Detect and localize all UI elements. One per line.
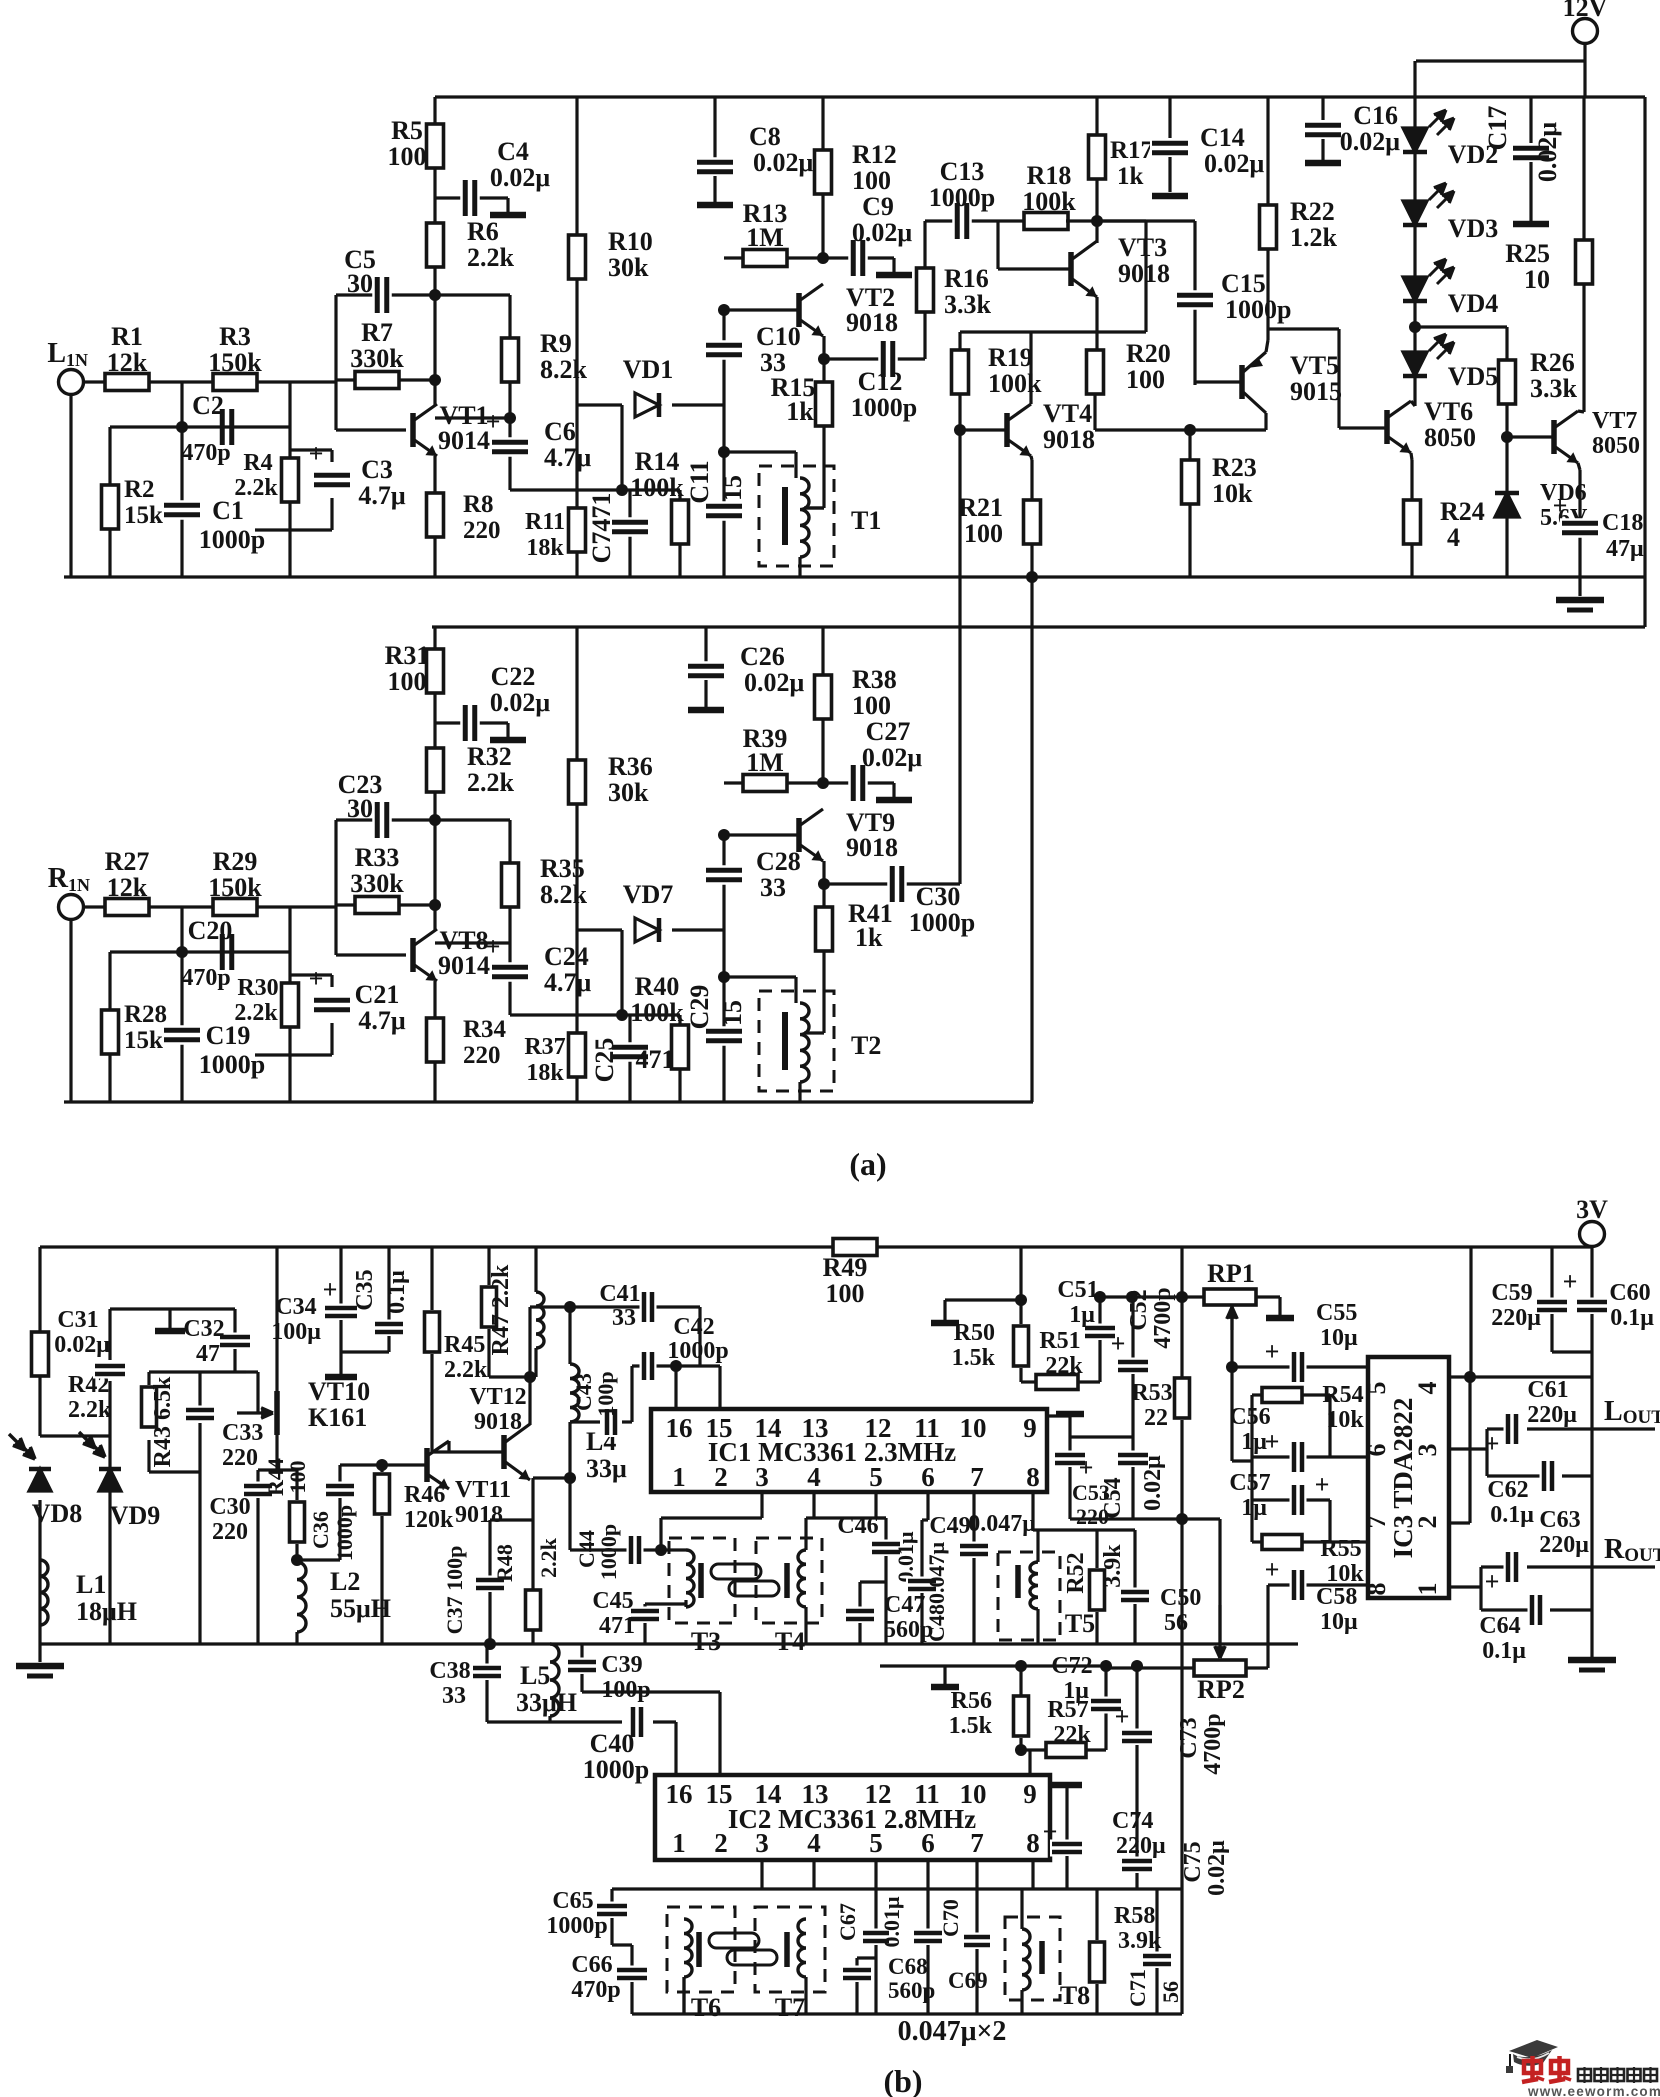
svg-text:R23: R23 xyxy=(1212,453,1257,482)
svg-text:C52: C52 xyxy=(1126,1289,1152,1330)
capacitor C2 xyxy=(217,407,237,447)
capacitor C37 xyxy=(488,1520,491,1576)
svg-text:R34: R34 xyxy=(463,1016,507,1043)
svg-text:R27: R27 xyxy=(105,847,150,876)
inductor L5 xyxy=(550,1644,559,1716)
svg-text:1k: 1k xyxy=(855,923,883,952)
capacitor C34 electrolytic xyxy=(339,1247,342,1304)
LED VD5 xyxy=(1403,352,1427,376)
svg-text:7: 7 xyxy=(970,1462,984,1492)
node R7 collector xyxy=(429,374,441,386)
wire R4 column xyxy=(288,382,291,462)
wire VD1 row xyxy=(577,403,622,406)
capacitor C66 xyxy=(612,1943,632,1946)
ground main xyxy=(1578,577,1581,596)
wire R41 to T2 tap xyxy=(822,951,825,1033)
svg-text:R53: R53 xyxy=(1131,1380,1172,1406)
svg-text:R14: R14 xyxy=(635,447,680,476)
svg-text:VT4: VT4 xyxy=(1043,399,1092,428)
wire VT6 collector xyxy=(1411,401,1415,406)
capacitor C63 electrolytic xyxy=(1479,1567,1482,1587)
diode VD7 xyxy=(635,918,659,942)
wire VT8 emitter xyxy=(433,981,436,1102)
capacitor C41 xyxy=(530,1305,700,1308)
wire VT2 collector xyxy=(821,97,824,234)
wire VT7 emitter xyxy=(1578,463,1580,470)
svg-text:1000p: 1000p xyxy=(596,1524,621,1580)
transistor VT6 xyxy=(1384,410,1390,444)
svg-text:T8: T8 xyxy=(1060,1981,1090,2010)
wire R2 branch xyxy=(110,425,182,428)
capacitor C68 xyxy=(857,1956,876,1959)
svg-text:0.02μ: 0.02μ xyxy=(1140,1455,1166,1511)
wire VT3 base xyxy=(996,221,999,269)
resistor R30 xyxy=(282,983,299,1027)
resistor R47 xyxy=(487,1247,490,1285)
svg-text:R32: R32 xyxy=(467,742,512,771)
wire input line ch2 xyxy=(69,920,72,1102)
svg-text:C65: C65 xyxy=(552,1888,593,1914)
wire C23/R33/base column xyxy=(334,820,337,955)
wire RP2 left feed xyxy=(1100,1660,1112,1672)
wire C30 coupling riser xyxy=(958,430,961,884)
capacitor C20 xyxy=(217,932,237,972)
svg-text:10μ: 10μ xyxy=(1320,1325,1358,1351)
resistor R49 xyxy=(833,1239,877,1256)
svg-text:C75: C75 xyxy=(1180,1841,1206,1882)
wire top supply bus section b xyxy=(40,1245,1592,1248)
svg-text:9018: 9018 xyxy=(846,308,898,337)
resistor R45 xyxy=(430,1247,433,1310)
wire IC1 pin9 xyxy=(1047,1414,1070,1417)
svg-text:R19: R19 xyxy=(988,343,1033,372)
transistor VT8 xyxy=(410,938,416,972)
diode VD1 xyxy=(635,393,659,417)
svg-text:56: 56 xyxy=(1164,1610,1188,1636)
svg-text:0.01μ: 0.01μ xyxy=(879,1896,904,1948)
svg-text:R33: R33 xyxy=(355,843,400,872)
svg-text:30k: 30k xyxy=(608,253,649,282)
resistor R21 xyxy=(1024,500,1041,544)
svg-text:10: 10 xyxy=(1524,265,1550,294)
svg-text:0.1μ: 0.1μ xyxy=(1490,1502,1534,1528)
transistor VT5 xyxy=(1239,365,1245,399)
svg-text:T4: T4 xyxy=(775,1627,805,1656)
svg-text:VT3: VT3 xyxy=(1118,233,1167,262)
wire pin4 stub IC2 xyxy=(812,1860,815,1889)
transformer T2 input wire xyxy=(724,975,796,978)
svg-text:VT7: VT7 xyxy=(1592,408,1637,434)
svg-text:0.1μ: 0.1μ xyxy=(1610,1305,1654,1331)
svg-text:47μ: 47μ xyxy=(1606,536,1644,562)
svg-text:+: + xyxy=(1265,1337,1280,1366)
svg-text:100p: 100p xyxy=(601,1677,650,1703)
svg-text:VT6: VT6 xyxy=(1424,397,1473,426)
wire VT3 emitter to R20 xyxy=(1095,297,1098,352)
transformer T4 xyxy=(756,1538,822,1623)
resistor R58 xyxy=(1095,1889,1098,1940)
wire IC1 pin8 block xyxy=(1031,1492,1034,1530)
svg-text:C69: C69 xyxy=(948,1968,988,1993)
svg-text:4: 4 xyxy=(1447,523,1460,552)
svg-text:L5: L5 xyxy=(520,1661,550,1690)
svg-text:+: + xyxy=(1265,1555,1280,1584)
svg-text:30k: 30k xyxy=(608,778,649,807)
photodiode VD9 xyxy=(108,1436,111,1469)
svg-text:33μ: 33μ xyxy=(586,1454,627,1483)
resistor R13 xyxy=(743,250,787,267)
svg-text:R56: R56 xyxy=(951,1688,992,1714)
wire R28 branch xyxy=(110,950,182,953)
svg-text:10: 10 xyxy=(960,1779,987,1809)
svg-text:8.2k: 8.2k xyxy=(540,355,588,384)
svg-text:+: + xyxy=(323,1275,338,1304)
svg-text:0.02μ: 0.02μ xyxy=(852,218,913,247)
transformer T6 xyxy=(667,1907,735,1992)
svg-text:0.1μ: 0.1μ xyxy=(384,1270,410,1314)
svg-text:1.2k: 1.2k xyxy=(1290,223,1338,252)
wire RP2 feed xyxy=(1070,1517,1220,1520)
resistor R40 xyxy=(678,1015,681,1102)
svg-text:0.01μ: 0.01μ xyxy=(893,1531,918,1583)
svg-text:13: 13 xyxy=(802,1779,829,1809)
svg-text:C70: C70 xyxy=(938,1899,963,1937)
wire IC1 pin5 xyxy=(874,1492,877,1518)
node C20 junction xyxy=(176,946,188,958)
svg-text:15: 15 xyxy=(718,1000,747,1026)
resistor R31 xyxy=(427,649,444,693)
svg-text:330k: 330k xyxy=(350,869,404,898)
svg-text:33: 33 xyxy=(442,1683,466,1709)
wire C31 branch xyxy=(108,1309,111,1360)
svg-text:C11: C11 xyxy=(685,460,714,503)
ground stub C4 xyxy=(490,212,526,219)
potentiometer RP2 xyxy=(1194,1660,1246,1676)
svg-text:1000p: 1000p xyxy=(909,908,975,937)
wire bottom ground bus channel 2 xyxy=(64,1100,1033,1103)
svg-text:220μ: 220μ xyxy=(1116,1833,1166,1859)
wire C3 column xyxy=(330,450,333,462)
wire VT2 base xyxy=(724,308,801,311)
svg-text:100k: 100k xyxy=(988,369,1042,398)
svg-text:2: 2 xyxy=(714,1828,728,1858)
svg-text:C37 100p: C37 100p xyxy=(442,1546,467,1635)
svg-text:VT11: VT11 xyxy=(455,1477,511,1503)
svg-text:C73: C73 xyxy=(1176,1717,1202,1758)
svg-text:R29: R29 xyxy=(213,847,258,876)
svg-text:3.3k: 3.3k xyxy=(944,290,992,319)
wire R16 column xyxy=(923,221,926,359)
svg-text:C16: C16 xyxy=(1353,101,1398,130)
capacitor C5 xyxy=(372,275,392,315)
svg-text:VD8: VD8 xyxy=(32,1499,83,1528)
wire R13 feedback row xyxy=(724,256,823,259)
capacitor C17 xyxy=(1529,97,1532,143)
inductor choke xyxy=(534,1247,537,1292)
svg-text:C41: C41 xyxy=(599,1281,640,1307)
svg-text:8: 8 xyxy=(1026,1828,1040,1858)
svg-text:22: 22 xyxy=(1144,1405,1168,1431)
svg-text:C25: C25 xyxy=(590,1038,619,1083)
node R44 L2 xyxy=(291,1554,303,1566)
wire R39 feedback row xyxy=(724,781,823,784)
capacitor C30b xyxy=(256,1470,259,1482)
wire T6 feed xyxy=(682,1977,685,2014)
svg-text:0.02μ: 0.02μ xyxy=(753,148,814,177)
wire bottom ground bus channel 1 xyxy=(64,575,1645,578)
resistor R15 xyxy=(816,382,833,426)
svg-text:R25: R25 xyxy=(1505,239,1550,268)
IC1 box xyxy=(651,1409,1047,1492)
svg-text:(a): (a) xyxy=(849,1146,886,1182)
node R13 base xyxy=(718,304,730,316)
resistor R10 xyxy=(569,235,586,279)
capacitor C15 xyxy=(1193,221,1196,385)
svg-text:9018: 9018 xyxy=(846,833,898,862)
node R21 ground bus xyxy=(1026,571,1038,583)
svg-text:33: 33 xyxy=(760,873,786,902)
transistor VT1 xyxy=(410,413,416,447)
svg-text:15: 15 xyxy=(706,1413,733,1443)
svg-text:4.7μ: 4.7μ xyxy=(358,481,406,510)
wire VT2 emitter xyxy=(822,336,825,385)
wire VT6 emitter xyxy=(1411,453,1412,460)
resistor R46 xyxy=(380,1465,383,1472)
wire VT8 collector column xyxy=(433,627,436,931)
svg-text:VD4: VD4 xyxy=(1448,289,1499,318)
svg-text:100p: 100p xyxy=(593,1371,618,1416)
svg-text:R6: R6 xyxy=(467,217,499,246)
inductor L2 xyxy=(297,1562,306,1632)
resistor R12 xyxy=(815,150,832,194)
wire bottom rail section b mid xyxy=(40,1642,1298,1645)
svg-text:T3: T3 xyxy=(691,1627,721,1656)
svg-text:R20: R20 xyxy=(1126,339,1171,368)
resistor R22 xyxy=(1266,97,1269,205)
transformer T7 xyxy=(755,1907,825,1992)
photodiode VD8 xyxy=(29,1469,51,1491)
svg-text:0.047μ: 0.047μ xyxy=(968,1511,1036,1537)
svg-text:2: 2 xyxy=(1413,1516,1442,1529)
svg-text:C3: C3 xyxy=(361,455,393,484)
node VT1 collector feedback xyxy=(429,289,441,301)
svg-text:C18: C18 xyxy=(1602,510,1643,536)
capacitor C48 xyxy=(920,1520,923,1577)
wire R43 C33 loop xyxy=(149,1370,246,1373)
wire IC3 pin4 row xyxy=(1449,1375,1592,1378)
svg-text:+: + xyxy=(1485,1567,1500,1596)
svg-text:C40: C40 xyxy=(590,1729,635,1758)
svg-text:C47: C47 xyxy=(884,1592,925,1618)
svg-text:470p: 470p xyxy=(571,1977,620,2003)
inductor L1 xyxy=(40,1560,48,1625)
capacitor C30 coupling xyxy=(871,882,960,885)
resistor R26 xyxy=(1505,327,1508,360)
svg-text:R47 2.2k: R47 2.2k xyxy=(488,1264,514,1355)
svg-text:0.02μ: 0.02μ xyxy=(1204,149,1265,178)
svg-text:C13: C13 xyxy=(940,157,985,186)
svg-text:C42: C42 xyxy=(673,1314,714,1340)
svg-text:K161: K161 xyxy=(308,1403,367,1432)
svg-text:220μ: 220μ xyxy=(1491,1305,1541,1331)
svg-text:C21: C21 xyxy=(355,980,400,1009)
svg-text:R1: R1 xyxy=(111,322,143,351)
capacitor C67 xyxy=(874,1860,877,1929)
resistor R48 xyxy=(526,1590,541,1630)
node R33 collector xyxy=(429,899,441,911)
svg-text:2.2k: 2.2k xyxy=(234,475,278,501)
capacitor C58 electrolytic xyxy=(1290,1568,1307,1602)
svg-text:5: 5 xyxy=(869,1462,883,1492)
svg-text:2.2k: 2.2k xyxy=(536,1537,561,1578)
wire IC3 pin2 tie xyxy=(1468,1377,1471,1523)
capacitor C52 xyxy=(1131,1297,1134,1358)
svg-text:100: 100 xyxy=(964,519,1003,548)
svg-text:C60: C60 xyxy=(1609,1280,1650,1306)
wire R36/R37 column xyxy=(575,627,578,1102)
resistor R50 xyxy=(1019,1247,1022,1324)
svg-text:8: 8 xyxy=(1362,1583,1391,1596)
svg-text:C35: C35 xyxy=(352,1269,378,1310)
svg-text:150k: 150k xyxy=(208,348,262,377)
svg-text:C54: C54 xyxy=(1100,1477,1126,1518)
resistor R14 xyxy=(678,490,681,577)
svg-text:8: 8 xyxy=(1026,1462,1040,1492)
svg-text:330k: 330k xyxy=(350,344,404,373)
wire VT7 base xyxy=(1505,404,1508,437)
svg-text:18k: 18k xyxy=(526,535,564,561)
wire 12V supply drop xyxy=(1583,43,1586,97)
wire left rail xyxy=(38,1247,41,1436)
capacitor C62 xyxy=(1485,1449,1488,1476)
svg-text:30: 30 xyxy=(347,794,373,823)
capacitor C75 xyxy=(1120,1857,1154,1874)
wire RP2 right xyxy=(1245,1666,1268,1669)
svg-text:R43 6.5k: R43 6.5k xyxy=(150,1376,176,1467)
capacitor C23 xyxy=(372,800,392,840)
wire RP1 row xyxy=(1100,1295,1205,1298)
resistor R33 xyxy=(355,897,399,914)
svg-text:R51: R51 xyxy=(1039,1328,1080,1354)
svg-text:100μ: 100μ xyxy=(271,1319,321,1345)
svg-text:R11: R11 xyxy=(525,509,565,535)
svg-text:470p: 470p xyxy=(181,440,230,466)
wire R15 to T1 tap xyxy=(822,426,825,508)
svg-text:R4: R4 xyxy=(243,450,272,476)
capacitor C42 xyxy=(640,1350,657,1382)
wire RP2 left xyxy=(1106,1666,1195,1669)
svg-text:C67: C67 xyxy=(835,1903,860,1941)
svg-text:+: + xyxy=(309,439,324,468)
svg-text:9018: 9018 xyxy=(455,1502,503,1528)
wire VT1 collector column xyxy=(433,97,436,406)
capacitor C70 xyxy=(975,1860,978,1933)
svg-text:1k: 1k xyxy=(1117,163,1144,190)
svg-text:C27: C27 xyxy=(866,717,911,746)
svg-text:15k: 15k xyxy=(124,502,163,529)
resistor R52 xyxy=(1095,1530,1098,1568)
svg-text:C71: C71 xyxy=(1125,1969,1150,2007)
resistor R18 xyxy=(1024,213,1068,230)
svg-text:100k: 100k xyxy=(630,473,684,502)
svg-text:47: 47 xyxy=(196,1341,220,1367)
ground left rail xyxy=(38,1644,41,1662)
svg-text:C15: C15 xyxy=(1221,269,1266,298)
capacitor C69 xyxy=(926,1860,929,1929)
wire FET gate xyxy=(246,1370,258,1373)
resistor R9 xyxy=(502,338,519,382)
terminal 12V xyxy=(1573,19,1598,44)
svg-text:1000p: 1000p xyxy=(332,1505,357,1561)
svg-text:C63: C63 xyxy=(1539,1507,1580,1533)
inductor L4 xyxy=(568,1307,571,1364)
capacitor C10 xyxy=(704,340,744,360)
transformer T3 xyxy=(669,1538,735,1623)
svg-text:R30: R30 xyxy=(237,975,278,1001)
svg-text:3: 3 xyxy=(755,1462,769,1492)
svg-text:9018: 9018 xyxy=(474,1409,522,1435)
svg-text:C72: C72 xyxy=(1051,1653,1092,1679)
svg-text:220μ: 220μ xyxy=(1539,1532,1589,1558)
svg-text:C30: C30 xyxy=(209,1494,250,1520)
capacitor C11 xyxy=(722,452,725,577)
vertical rail x1182 xyxy=(1180,1519,1183,2014)
node R18 R17 junction xyxy=(1091,215,1103,227)
resistor R16 xyxy=(917,268,934,312)
ground stub C31 line xyxy=(168,1309,171,1328)
LED VD4 xyxy=(1403,277,1427,301)
wire C10/C11 column xyxy=(722,310,725,452)
svg-text:1μ: 1μ xyxy=(1241,1429,1267,1455)
resistor R4 xyxy=(282,458,299,502)
svg-text:8050: 8050 xyxy=(1592,433,1640,459)
svg-text:R5: R5 xyxy=(391,116,423,145)
svg-text:2.2k: 2.2k xyxy=(467,243,515,272)
svg-text:0.02μ: 0.02μ xyxy=(1533,122,1562,183)
svg-text:3V: 3V xyxy=(1576,1195,1608,1224)
svg-text:VT5: VT5 xyxy=(1290,351,1339,380)
svg-text:1M: 1M xyxy=(746,748,784,777)
svg-text:12k: 12k xyxy=(107,348,148,377)
svg-text:1: 1 xyxy=(672,1828,686,1858)
svg-text:12: 12 xyxy=(865,1779,892,1809)
svg-text:IC3 TDA2822: IC3 TDA2822 xyxy=(1388,1398,1418,1559)
watermark site name xyxy=(1578,2069,1591,2081)
svg-text:0.02μ: 0.02μ xyxy=(862,743,923,772)
capacitor C45 xyxy=(645,1602,686,1605)
resistor R6 xyxy=(427,223,444,267)
svg-text:C64: C64 xyxy=(1479,1613,1520,1639)
svg-text:C29: C29 xyxy=(685,985,714,1030)
svg-text:3.3k: 3.3k xyxy=(1530,374,1578,403)
zener VD6 xyxy=(1505,437,1508,493)
wire R50 branch xyxy=(945,1298,1021,1301)
wire emitter to C6 node xyxy=(435,416,510,419)
svg-text:4: 4 xyxy=(1413,1382,1442,1395)
wire VT10 drain xyxy=(275,1247,278,1391)
transformer T5 xyxy=(998,1552,1060,1640)
capacitor C9 xyxy=(823,256,894,259)
capacitor C18 electrolytic xyxy=(1560,518,1600,538)
svg-text:0.02μ: 0.02μ xyxy=(1204,1840,1230,1896)
svg-text:C10: C10 xyxy=(756,322,801,351)
svg-text:R52: R52 xyxy=(1063,1552,1089,1593)
wire C2/C1 branch xyxy=(180,382,183,577)
resistor R23 xyxy=(1188,430,1191,577)
svg-text:18μH: 18μH xyxy=(76,1597,137,1626)
transformer T1 xyxy=(759,466,834,566)
svg-text:+: + xyxy=(486,932,501,961)
